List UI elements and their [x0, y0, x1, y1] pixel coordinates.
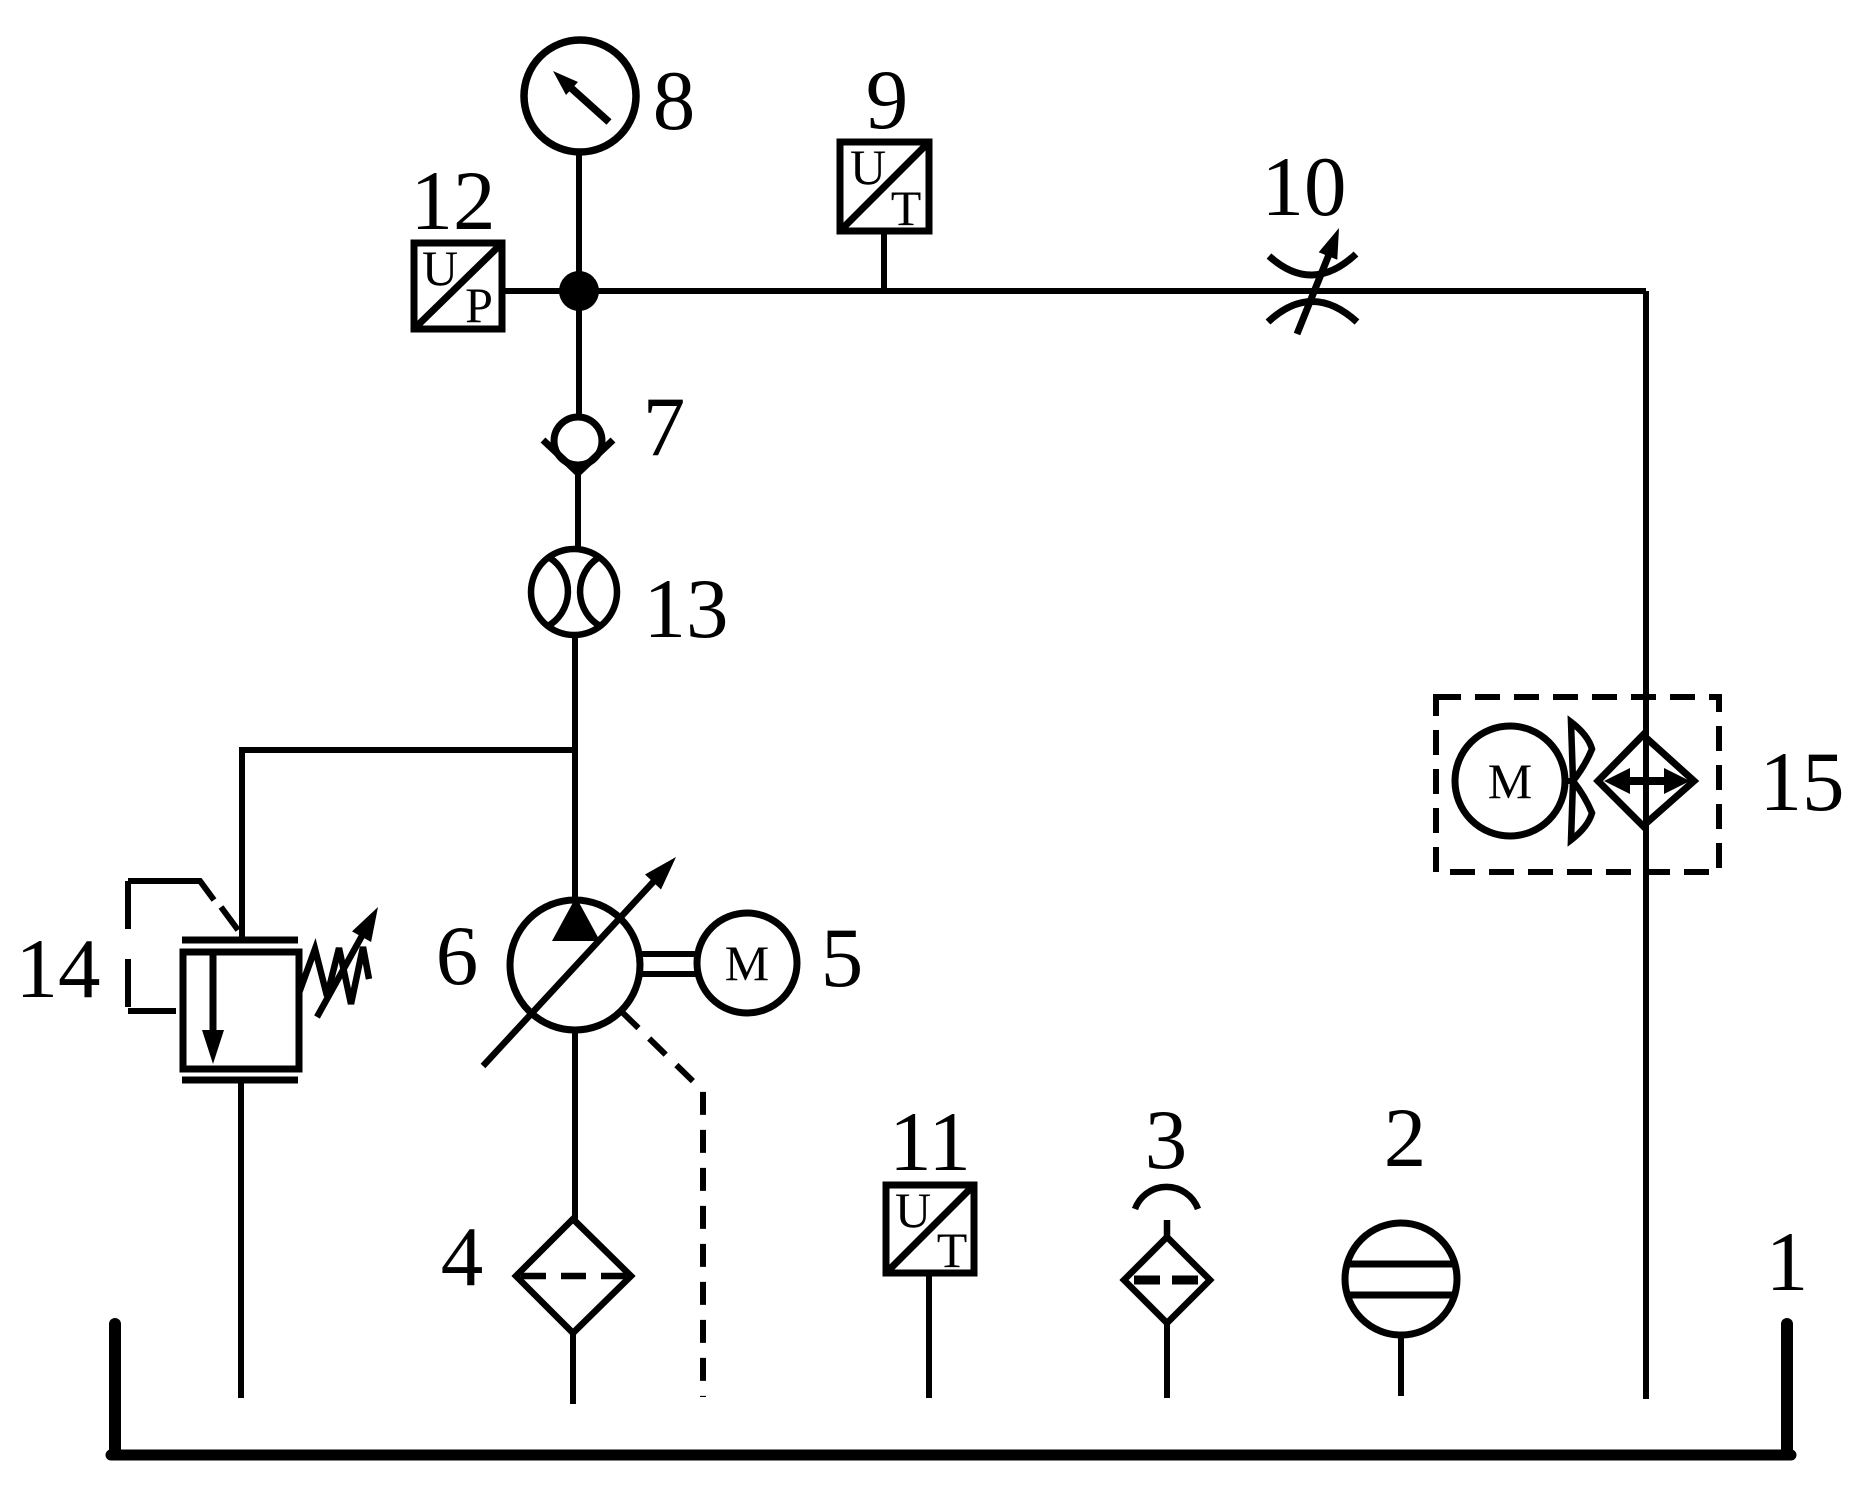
pressure sensor 12: [414, 243, 502, 329]
temperature sensor 11: [886, 1185, 974, 1273]
svg-text:15: 15: [1760, 735, 1845, 829]
shaft between pump 6 and motor 5: [640, 951, 697, 957]
check valve 7: [543, 417, 613, 473]
svg-text:1: 1: [1766, 1215, 1809, 1309]
svg-text:7: 7: [643, 380, 686, 474]
pressure gauge 8: [524, 40, 636, 152]
wire: main horizontal line from sensor 12 to right corner: [502, 288, 1646, 294]
cooler unit 15 dashed enclosure: [1436, 697, 1719, 872]
flow meter 13: [531, 549, 617, 635]
variable pump 6: [510, 900, 640, 1030]
svg-text:14: 14: [16, 922, 101, 1016]
wire: relief valve drain to tank: [238, 1080, 244, 1398]
level gauge 2: [1345, 1223, 1457, 1335]
svg-text:2: 2: [1384, 1091, 1427, 1185]
wire: sensor 9 stem: [881, 231, 887, 291]
relief valve 14: [182, 934, 369, 1080]
wire: gauge 2 stem: [1398, 1335, 1404, 1396]
svg-text:9: 9: [866, 53, 909, 147]
pilot dashed line of valve 14: [128, 1008, 176, 1014]
svg-text:5: 5: [821, 911, 864, 1005]
svg-text:6: 6: [436, 909, 479, 1003]
wire: right vertical line down to tank: [1643, 291, 1649, 1399]
svg-text:12: 12: [411, 154, 496, 248]
fan coupling: [1565, 778, 1573, 784]
cooler double arrow: [1615, 777, 1678, 785]
wire: gauge 8 stem: [576, 150, 582, 291]
temperature sensor 9: [840, 142, 929, 231]
wire: vertical from junction to check valve 7: [576, 291, 582, 418]
wire: sensor 11 stem: [926, 1273, 932, 1398]
wire: filter 4 to tank: [570, 1333, 576, 1404]
svg-text:11: 11: [889, 1095, 971, 1189]
wire: branch to relief valve: [242, 750, 575, 940]
svg-text:T: T: [891, 180, 922, 236]
fan motor M of cooler 15: [1455, 726, 1565, 836]
svg-text:T: T: [937, 1222, 968, 1278]
svg-text:M: M: [1488, 753, 1532, 809]
electric motor 5: [697, 913, 797, 1013]
throttle valve 10: [1268, 252, 1357, 334]
fan blades: [1571, 722, 1592, 840]
wire: check valve to flow meter: [575, 473, 581, 550]
svg-text:4: 4: [441, 1210, 484, 1304]
svg-text:U: U: [422, 240, 458, 296]
suction filter 4: [516, 1219, 631, 1333]
svg-text:P: P: [465, 277, 493, 333]
air breather 3: [1124, 1187, 1210, 1323]
svg-text:M: M: [725, 935, 769, 991]
svg-text:U: U: [850, 139, 886, 195]
svg-text:3: 3: [1145, 1093, 1188, 1187]
wire: flow meter to pump: [572, 635, 578, 900]
svg-text:U: U: [895, 1182, 931, 1238]
dashed drain line from pump 6: [622, 1012, 703, 1397]
wire: pump to filter 4: [572, 1030, 578, 1219]
svg-text:10: 10: [1262, 140, 1347, 234]
node junction dot: [559, 271, 599, 311]
tank 1: [111, 1324, 1791, 1455]
svg-text:8: 8: [653, 54, 696, 148]
cooler diamond 15: [1598, 735, 1694, 826]
svg-text:13: 13: [644, 562, 729, 656]
wire: breather 3 stem: [1164, 1323, 1170, 1398]
